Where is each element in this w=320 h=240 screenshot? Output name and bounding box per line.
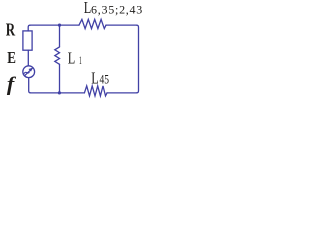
wire top-right segment xyxy=(106,24,137,26)
svg-text:E: E xyxy=(7,48,16,67)
source E arrowhead xyxy=(29,68,34,72)
wire top-left corner xyxy=(28,25,30,31)
svg-text:1: 1 xyxy=(79,53,82,67)
svg-text:R: R xyxy=(6,20,16,40)
svg-text:6,35;2,43: 6,35;2,43 xyxy=(91,3,142,17)
wire source to bottom-left corner xyxy=(29,78,31,93)
svg-text:L: L xyxy=(68,49,76,68)
wire bottom-right segment xyxy=(107,92,137,94)
wire right branch xyxy=(137,25,139,93)
svg-text:L: L xyxy=(91,68,99,87)
wire top-left segment xyxy=(30,24,79,26)
source E tilde xyxy=(23,72,29,74)
source E arrow shaft xyxy=(25,68,33,76)
node bottom junction xyxy=(58,91,61,94)
wire middle branch upper xyxy=(59,25,61,47)
svg-text:45: 45 xyxy=(100,73,110,87)
svg-text:f: f xyxy=(7,74,17,95)
source E circle xyxy=(23,66,35,78)
wire R to source xyxy=(27,50,29,66)
inductor L45 zigzag xyxy=(84,86,107,96)
wire bottom-left segment xyxy=(31,92,85,94)
inductor L1 zigzag xyxy=(55,47,60,64)
node top junction xyxy=(58,24,61,27)
resistor R box xyxy=(23,31,32,50)
inductor L6,35;2,43 zigzag xyxy=(79,19,106,28)
wire middle branch lower xyxy=(59,64,61,93)
